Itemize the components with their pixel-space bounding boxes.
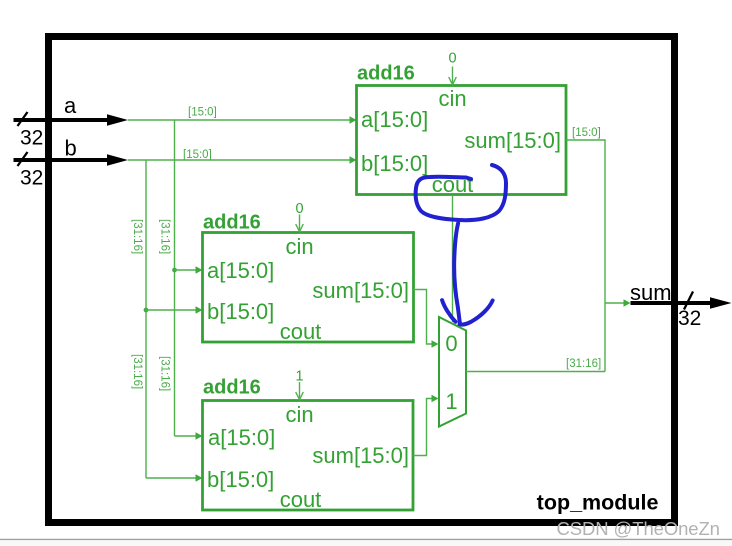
input b bus slash: [18, 152, 28, 166]
page divider line: [0, 539, 732, 541]
wire sum to output: [605, 299, 631, 306]
svg-text:b[15:0]: b[15:0]: [361, 151, 428, 176]
svg-text:1: 1: [445, 389, 457, 414]
output sum wire: [631, 301, 715, 305]
svg-text:32: 32: [20, 167, 43, 190]
svg-text:sum[15:0]: sum[15:0]: [464, 128, 561, 153]
wire b[31:16] vertical: [145, 160, 147, 478]
svg-text:cin: cin: [438, 86, 466, 111]
adder U1 box: [357, 86, 567, 195]
svg-text:sum: sum: [630, 280, 672, 305]
svg-text:b: b: [65, 136, 77, 161]
annotation arrowhead left barb: [442, 300, 455, 322]
adder U2 box: [203, 233, 414, 343]
mux select wire from U1 cout: [452, 195, 454, 323]
wire mux output [31:16]: [466, 371, 605, 373]
svg-text:[31:16]: [31:16]: [131, 354, 143, 389]
svg-text:32: 32: [20, 127, 43, 150]
wire a[31:16] vertical: [174, 120, 176, 436]
annotation loop around cout: [416, 165, 506, 220]
U1 cin wire: [449, 67, 457, 85]
svg-text:32: 32: [678, 307, 701, 330]
svg-text:[15:0]: [15:0]: [183, 149, 212, 161]
svg-text:add16: add16: [203, 377, 261, 399]
wire a[31:16] to U2: [175, 266, 203, 273]
svg-text:add16: add16: [203, 212, 261, 234]
mux M1: [439, 317, 466, 427]
svg-text:[15:0]: [15:0]: [188, 107, 217, 119]
junction dot on b[31:16]: [144, 308, 149, 313]
U3 cin wire: [296, 382, 304, 400]
svg-text:cout: cout: [280, 319, 322, 344]
U2 sum wire to mux input 0: [414, 290, 439, 348]
svg-text:a: a: [64, 93, 77, 118]
U3 sum wire to mux input 1: [413, 395, 439, 456]
svg-text:0: 0: [448, 51, 456, 67]
svg-text:[31:16]: [31:16]: [566, 358, 601, 370]
svg-text:sum[15:0]: sum[15:0]: [312, 278, 409, 303]
svg-text:sum[15:0]: sum[15:0]: [312, 443, 409, 468]
svg-text:CSDN @TheOneZn: CSDN @TheOneZn: [557, 518, 720, 539]
input a wire: [14, 118, 113, 122]
top_module border: [49, 37, 675, 523]
input b arrowhead: [107, 154, 128, 166]
annotation arrowhead right barb: [460, 301, 493, 325]
svg-text:a[15:0]: a[15:0]: [208, 425, 275, 450]
output sum arrowhead: [710, 297, 732, 309]
wire b[31:16] to U3: [146, 474, 203, 481]
junction dot on a[31:16]: [172, 268, 177, 273]
svg-text:cin: cin: [285, 234, 313, 259]
svg-text:cout: cout: [280, 487, 322, 512]
input a bus slash: [18, 112, 28, 126]
output bus slash: [684, 292, 693, 310]
wire b[31:16] to U2: [146, 306, 203, 313]
wire sum[15:0] from U1: [566, 140, 605, 372]
wire a[31:16] to U3: [175, 432, 203, 439]
page background below divider: [0, 540, 732, 546]
wire a[15:0] to U1: [128, 116, 357, 123]
wire b[15:0] to U1: [128, 156, 357, 163]
svg-text:[31:16]: [31:16]: [159, 356, 171, 391]
svg-text:a[15:0]: a[15:0]: [361, 107, 428, 132]
svg-text:[31:16]: [31:16]: [159, 219, 171, 254]
U2 cin wire: [296, 215, 304, 232]
adder U3 box: [203, 401, 414, 511]
svg-text:top_module: top_module: [537, 491, 659, 515]
svg-text:b[15:0]: b[15:0]: [207, 299, 274, 324]
svg-text:0: 0: [445, 331, 457, 356]
svg-text:a[15:0]: a[15:0]: [207, 258, 274, 283]
input b wire: [14, 158, 113, 162]
svg-text:[31:16]: [31:16]: [131, 219, 143, 254]
svg-text:b[15:0]: b[15:0]: [207, 467, 274, 492]
svg-text:add16: add16: [357, 63, 415, 85]
svg-text:cin: cin: [285, 402, 313, 427]
annotation arrow line to mux input 0: [454, 223, 460, 322]
input a arrowhead: [107, 114, 128, 126]
svg-text:[15:0]: [15:0]: [572, 127, 601, 139]
